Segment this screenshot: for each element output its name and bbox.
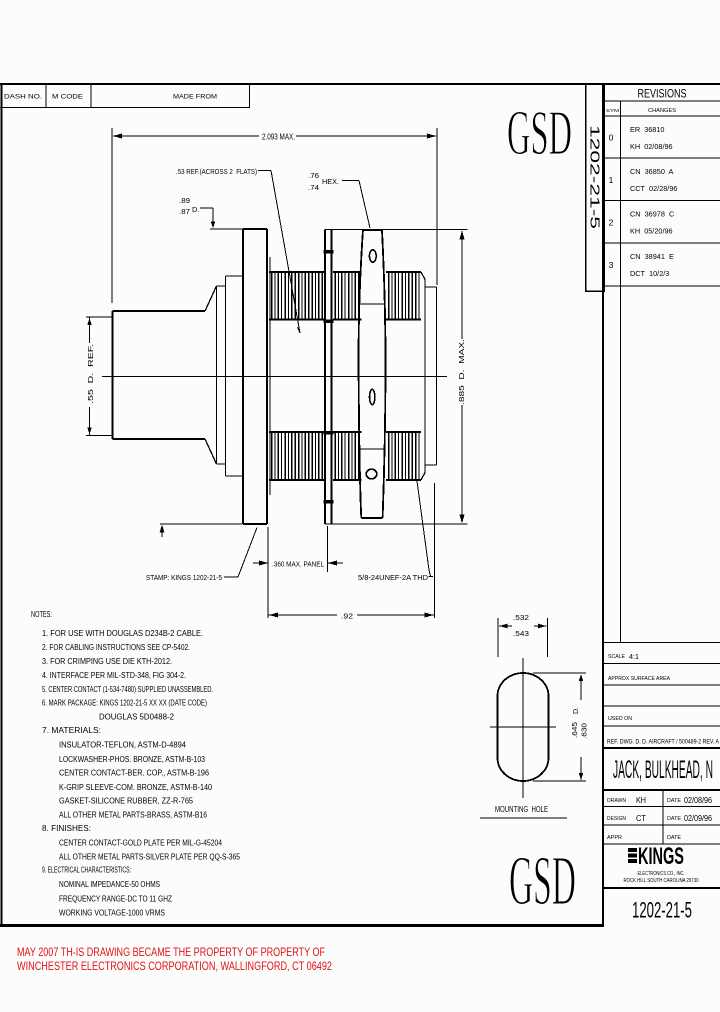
svg-text:ROCK HILL SOUTH CAROLINA 29730: ROCK HILL SOUTH CAROLINA 29730: [624, 878, 699, 884]
svg-text:.630: .630: [582, 723, 589, 739]
svg-text:.76: .76: [308, 171, 319, 180]
svg-text:CHANGES: CHANGES: [648, 108, 676, 114]
svg-text:5/8-24UNEF-2A THD: 5/8-24UNEF-2A THD: [358, 573, 429, 582]
svg-text:JACK, BULKHEAD, N: JACK, BULKHEAD, N: [613, 756, 713, 784]
svg-text:GASKET-SILICONE RUBBER, ZZ-R-7: GASKET-SILICONE RUBBER, ZZ-R-765: [59, 797, 193, 806]
svg-text:3. FOR CRIMPING USE DIE KTH-20: 3. FOR CRIMPING USE DIE KTH-2012.: [42, 657, 172, 666]
svg-text:REF. DWG. D. D. AIRCRAFT / 500: REF. DWG. D. D. AIRCRAFT / 500489-2 REV.…: [607, 739, 719, 746]
svg-text:ER 36810: ER 36810: [630, 125, 664, 134]
svg-text:MADE FROM: MADE FROM: [173, 94, 217, 101]
svg-text:8. FINISHES:: 8. FINISHES:: [42, 824, 91, 833]
svg-text:CN 38941 E: CN 38941 E: [630, 252, 674, 261]
svg-text:MOUNTING HOLE: MOUNTING HOLE: [495, 804, 548, 814]
svg-text:1202-21-5: 1202-21-5: [632, 898, 692, 923]
svg-text:CENTER CONTACT-BER. COP., ASTM: CENTER CONTACT-BER. COP., ASTM-B-196: [59, 769, 209, 778]
svg-text:4. INTERFACE PER MIL-STD-348,: 4. INTERFACE PER MIL-STD-348, FIG 304-2.: [42, 671, 186, 680]
svg-text:STAMP: KINGS 1202-21-5: STAMP: KINGS 1202-21-5: [146, 573, 222, 582]
svg-text:.92: .92: [341, 612, 353, 621]
svg-text:.74: .74: [308, 183, 319, 192]
svg-text:ALL OTHER METAL PARTS-SILVER P: ALL OTHER METAL PARTS-SILVER PLATE PER Q…: [59, 853, 240, 862]
svg-text:APPROX SURFACE AREA: APPROX SURFACE AREA: [608, 676, 670, 682]
svg-text:HEX.: HEX.: [322, 177, 339, 186]
svg-text:.885 D. MAX.: .885 D. MAX.: [457, 339, 466, 405]
svg-text:02/09/96: 02/09/96: [684, 814, 712, 823]
svg-text:2.093 MAX.: 2.093 MAX.: [262, 133, 295, 142]
svg-text:4:1: 4:1: [629, 654, 639, 661]
svg-text:1. FOR USE WITH DOUGLAS D234B-: 1. FOR USE WITH DOUGLAS D234B-2 CABLE.: [42, 629, 203, 638]
svg-text:WINCHESTER ELECTRONICS CORPORA: WINCHESTER ELECTRONICS CORPORATION, WALL…: [17, 959, 332, 973]
svg-text:KINGS: KINGS: [638, 843, 684, 870]
svg-text:NOMINAL IMPEDANCE-50 OHMS: NOMINAL IMPEDANCE-50 OHMS: [59, 880, 160, 889]
svg-text:.89: .89: [179, 196, 190, 205]
svg-text:DATE: DATE: [667, 835, 682, 841]
svg-text:GSD: GSD: [507, 97, 572, 168]
svg-text:SCALE: SCALE: [608, 654, 625, 660]
svg-text:INSULATOR-TEFLON, ASTM-D-4894: INSULATOR-TEFLON, ASTM-D-4894: [59, 741, 187, 750]
svg-text:.532: .532: [513, 615, 529, 622]
svg-text:CCT 02/28/96: CCT 02/28/96: [630, 184, 677, 193]
svg-text:6. MARK PACKAGE: KINGS 1202-21: 6. MARK PACKAGE: KINGS 1202-21-5 XX XX (…: [42, 699, 207, 708]
svg-text:2: 2: [609, 217, 614, 227]
svg-text:REVISIONS: REVISIONS: [638, 89, 687, 101]
svg-text:KH 02/08/96: KH 02/08/96: [630, 142, 673, 151]
svg-text:ELECTRONICS CO., INC.: ELECTRONICS CO., INC.: [638, 871, 685, 877]
svg-text:DOUGLAS 5D0488-2: DOUGLAS 5D0488-2: [99, 713, 175, 722]
svg-text:DATE: DATE: [667, 816, 682, 822]
svg-text:GSD: GSD: [509, 843, 576, 920]
svg-text:LOCKWASHER-PHOS. BRONZE, ASTM-: LOCKWASHER-PHOS. BRONZE, ASTM-B-103: [59, 755, 205, 764]
svg-text:FREQUENCY RANGE-DC TO 11 GHZ: FREQUENCY RANGE-DC TO 11 GHZ: [59, 895, 172, 904]
svg-text:9. ELECTRICAL CHARACTERISTICS:: 9. ELECTRICAL CHARACTERISTICS:: [42, 866, 131, 875]
svg-text:CT: CT: [636, 814, 646, 823]
svg-text:0: 0: [609, 133, 614, 143]
svg-text:DATE: DATE: [667, 798, 682, 804]
svg-text:WORKING VOLTAGE-1000 VRMS: WORKING VOLTAGE-1000 VRMS: [59, 909, 165, 918]
svg-text:5. CENTER CONTACT (1-534-7480): 5. CENTER CONTACT (1-534-7480) SUPPLIED …: [42, 685, 213, 694]
svg-text:KH: KH: [636, 796, 646, 805]
svg-text:ALL OTHER METAL PARTS-BRASS, A: ALL OTHER METAL PARTS-BRASS, ASTM-B16: [59, 811, 207, 820]
svg-text:.360 MAX. PANEL: .360 MAX. PANEL: [272, 560, 324, 569]
svg-text:7. MATERIALS:: 7. MATERIALS:: [42, 726, 101, 735]
svg-text:.55 D. REF.: .55 D. REF.: [86, 344, 95, 404]
svg-text:DRAWN: DRAWN: [607, 798, 626, 804]
svg-text:USED ON: USED ON: [608, 716, 632, 722]
svg-text:K-GRIP SLEEVE-COM. BRONZE, AST: K-GRIP SLEEVE-COM. BRONZE, ASTM-B-140: [59, 783, 212, 792]
svg-text:CENTER CONTACT-GOLD PLATE PER: CENTER CONTACT-GOLD PLATE PER MIL-G-4520…: [59, 839, 222, 848]
svg-text:.645: .645: [572, 722, 579, 738]
svg-text:.87: .87: [179, 207, 190, 216]
svg-text:SYM: SYM: [606, 108, 619, 114]
svg-text:.543: .543: [513, 631, 529, 638]
svg-text:KH 05/20/96: KH 05/20/96: [630, 227, 673, 236]
svg-text:NOTES:: NOTES:: [31, 610, 52, 619]
svg-text:02/08/96: 02/08/96: [684, 796, 712, 805]
svg-text:1202-21-5: 1202-21-5: [588, 125, 602, 229]
svg-text:D.: D.: [573, 707, 580, 714]
svg-text:D.: D.: [192, 205, 200, 214]
svg-text:.53 REF.(ACROSS 2 FLATS): .53 REF.(ACROSS 2 FLATS): [176, 167, 257, 176]
svg-text:DESIGN: DESIGN: [607, 816, 626, 822]
svg-text:M CODE: M CODE: [52, 94, 84, 101]
svg-text:3: 3: [609, 260, 614, 270]
svg-text:CN 36978 C: CN 36978 C: [630, 210, 674, 219]
svg-text:DASH NO.: DASH NO.: [4, 94, 42, 101]
svg-text:1: 1: [609, 175, 614, 185]
svg-text:MAY 2007 TH-IS DRAWING BECAME: MAY 2007 TH-IS DRAWING BECAME THE PROPER…: [17, 945, 325, 959]
svg-text:2. FOR CABLING INSTRUCTIONS SE: 2. FOR CABLING INSTRUCTIONS SEE CP-5402.: [42, 643, 190, 652]
svg-text:CN 36850 A: CN 36850 A: [630, 167, 674, 176]
svg-text:DCT 10/2/3: DCT 10/2/3: [630, 269, 669, 278]
svg-text:APPR: APPR: [607, 835, 622, 841]
